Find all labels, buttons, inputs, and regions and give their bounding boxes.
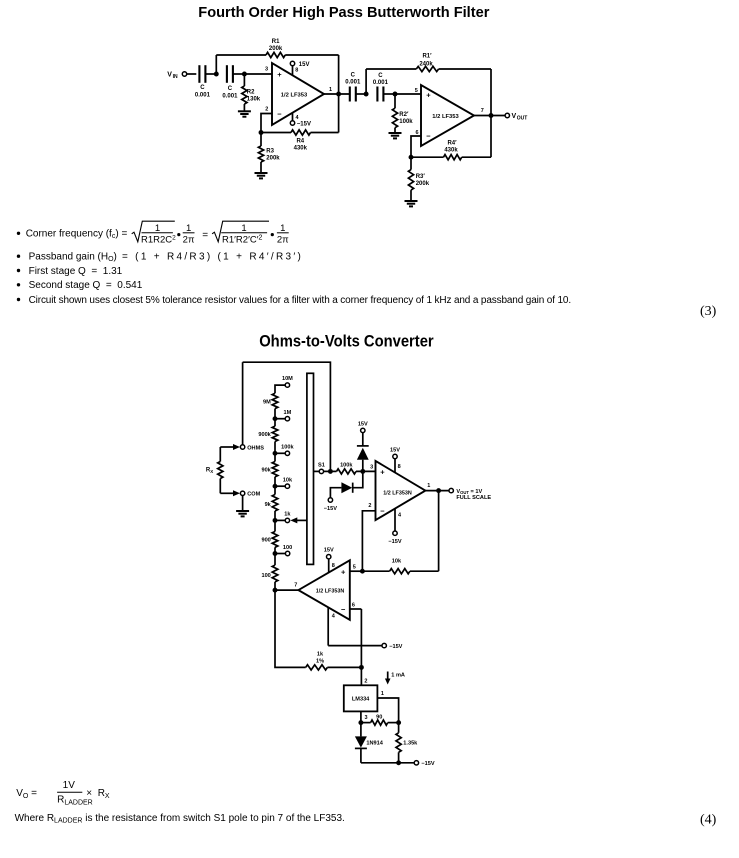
- wire VIN to C1: [187, 73, 197, 75]
- wire C3 to node E: [356, 93, 366, 95]
- svg-text:Circuit shown uses closest 5%: Circuit shown uses closest 5% tolerance …: [29, 295, 571, 306]
- svg-text:2: 2: [364, 678, 367, 684]
- power +15V terminal U1 pin 8: [290, 61, 309, 68]
- svg-text:S1: S1: [318, 462, 325, 468]
- svg-text:8: 8: [398, 464, 401, 470]
- svg-text:R1′: R1′: [422, 53, 432, 59]
- wire 100k tap to 90k: [274, 453, 276, 461]
- pin 5 wire U4: [350, 564, 363, 571]
- svg-text:900: 900: [261, 538, 270, 544]
- resistor R4' 430k: [444, 155, 462, 160]
- node VOUT terminal: [505, 113, 527, 122]
- svg-text:Ohms-to-Volts Converter: Ohms-to-Volts Converter: [259, 332, 434, 350]
- wire R1 rail right segment: [285, 54, 338, 56]
- wire R1' rail right segment: [439, 68, 491, 70]
- svg-text:8: 8: [332, 563, 335, 569]
- wire Rx to COM with arrow: [220, 490, 240, 496]
- svg-text:R3′: R3′: [416, 174, 426, 180]
- resistor R4 430k: [291, 130, 311, 135]
- resistor R3' 200k: [408, 170, 413, 191]
- bullet: circuit tolerance note: [17, 295, 571, 306]
- pin 3 label U1: [265, 67, 268, 73]
- wire 1k tap to 900: [274, 520, 276, 531]
- resistor ladder 90k: [272, 462, 278, 477]
- node 1M tap junction: [273, 416, 286, 421]
- svg-text:−: −: [380, 507, 385, 516]
- resistor ladder 100: [272, 565, 278, 582]
- svg-text:9M: 9M: [263, 400, 271, 406]
- svg-text:2: 2: [368, 503, 371, 509]
- bullet: passband gain: [17, 252, 303, 264]
- label R1' 240k: [419, 53, 433, 67]
- svg-text:3: 3: [265, 67, 268, 73]
- node VOUT2 terminal: [449, 488, 491, 501]
- node K junction (pin 3 node): [360, 469, 365, 474]
- label R3' 200k: [416, 174, 430, 187]
- svg-text:0.001: 0.001: [195, 93, 211, 99]
- svg-text:(4): (4): [700, 813, 717, 828]
- wire U1 output: [324, 93, 350, 95]
- svg-text:10k: 10k: [392, 559, 402, 565]
- wire S1 bar to pole: [314, 470, 320, 472]
- wire U2 pin 6 to feedback corner: [411, 136, 421, 157]
- svg-text:1/2 LF353N: 1/2 LF353N: [383, 490, 412, 496]
- wire output rail up stage2: [490, 116, 492, 158]
- svg-text:5: 5: [353, 564, 356, 570]
- svg-text:R4′: R4′: [447, 140, 457, 146]
- svg-text:15V: 15V: [324, 548, 334, 554]
- resistor R2 130k: [242, 86, 247, 104]
- wire node C to R4: [261, 132, 291, 134]
- node 100k tap junction: [273, 451, 286, 456]
- svg-text:10k: 10k: [283, 478, 293, 484]
- svg-text:0.001: 0.001: [345, 80, 361, 86]
- svg-text:100k: 100k: [281, 445, 294, 451]
- wire ladder top to 10M tap: [275, 385, 287, 393]
- svg-text:240k: 240k: [419, 62, 433, 68]
- wire 1M tap to 900k: [274, 419, 276, 427]
- wire U3 output: [425, 490, 449, 492]
- wire 10k tap to 9k: [274, 486, 276, 494]
- svg-text:R4: R4: [296, 138, 304, 144]
- node D output junction stage1: [336, 92, 341, 97]
- power +15V terminal U3 pin 8: [390, 447, 400, 458]
- label R4 430k: [294, 138, 308, 151]
- wire U2 output: [474, 115, 505, 117]
- wire node P to diode 1N914: [360, 723, 362, 737]
- wire 9M to 1M tap: [274, 409, 276, 419]
- svg-text:Second stage Q = 0.541: Second stage Q = 0.541: [29, 280, 143, 291]
- svg-text:−15V: −15V: [421, 761, 434, 767]
- svg-text:=: =: [202, 230, 208, 241]
- wire R1' rail left segment: [366, 68, 416, 70]
- svg-text:R1′R2′C′2: R1′R2′C′2: [222, 234, 263, 245]
- svg-text:1/2 LF353: 1/2 LF353: [432, 114, 459, 120]
- wire S1 pole to node J: [324, 470, 337, 472]
- node 100 tap junction: [273, 551, 286, 556]
- node A junction (C1/C2/R1 feedback): [214, 72, 219, 77]
- op-amp U4 1/2 LF353N (ladder driver): [298, 560, 349, 620]
- svg-text:6: 6: [415, 130, 418, 136]
- svg-text:15V: 15V: [299, 62, 310, 68]
- node E junction (C3/C4/R1' feedback): [364, 92, 369, 97]
- wire LM334 pin 3: [361, 711, 368, 722]
- label 100 resistor: [261, 573, 270, 579]
- svg-text:7: 7: [481, 108, 484, 114]
- svg-text:0.001: 0.001: [222, 94, 238, 100]
- node 10k tap terminal: [283, 478, 293, 489]
- ground under R2: [238, 111, 251, 116]
- svg-text:200k: 200k: [266, 156, 280, 162]
- label 100k input: [340, 462, 353, 468]
- svg-text:430k: 430k: [444, 148, 458, 154]
- ground under COM: [236, 511, 249, 516]
- svg-text:−15V: −15V: [388, 539, 401, 545]
- svg-text:1.35k: 1.35k: [403, 741, 418, 747]
- op-amp U1 1/2 LF353 (stage 1): [272, 63, 324, 125]
- wire 900 to 100 tap: [274, 547, 276, 553]
- label 9M: [263, 400, 271, 406]
- svg-text:1M: 1M: [284, 410, 292, 416]
- wire R1 rail down to output node: [338, 55, 340, 94]
- svg-text:200k: 200k: [416, 181, 430, 187]
- label R2' 100k: [399, 112, 413, 125]
- svg-text:OUT: OUT: [517, 116, 528, 122]
- svg-text:−15V: −15V: [324, 506, 337, 512]
- diode D3 1N914: [355, 736, 384, 748]
- resistor ladder 900k: [272, 426, 278, 441]
- resistor R2' 100k: [392, 108, 397, 128]
- svg-text:200k: 200k: [269, 46, 283, 52]
- svg-text:1: 1: [427, 483, 430, 489]
- svg-text:1: 1: [329, 87, 332, 93]
- svg-text:1N914: 1N914: [366, 740, 383, 746]
- svg-text:7: 7: [294, 582, 297, 588]
- wire R1' rail down to output node: [490, 69, 492, 116]
- wire R4' to output rail: [462, 156, 491, 158]
- resistor ladder 9k: [272, 495, 278, 512]
- svg-text:1%: 1%: [316, 659, 324, 665]
- label 10k: [392, 559, 402, 565]
- title: Fourth Order High Pass Butterworth Filter: [198, 5, 489, 21]
- label C2 value C 0.001: [222, 86, 238, 100]
- label C3 value C 0.001: [345, 72, 361, 85]
- svg-text:1k: 1k: [317, 652, 324, 658]
- wire node G to R4': [411, 156, 444, 158]
- wire node A up to R1 rail: [215, 55, 217, 74]
- ground under R2': [389, 133, 402, 138]
- wire node G to R3': [410, 157, 412, 169]
- pin 4 stub U3: [395, 509, 402, 531]
- svg-text:90: 90: [376, 714, 382, 720]
- bullet: first stage Q: [17, 266, 123, 277]
- svg-text:100k: 100k: [399, 119, 413, 125]
- pin 2 label U1: [265, 106, 268, 112]
- svg-text:+: +: [380, 468, 385, 477]
- svg-text:1: 1: [241, 223, 246, 234]
- node 1k tap terminal: [284, 512, 291, 523]
- node B junction (C2/R2/op-amp +): [242, 72, 247, 77]
- svg-text:10M: 10M: [282, 376, 293, 382]
- pin 6 label U2: [415, 130, 418, 136]
- svg-text:R2: R2: [247, 90, 255, 96]
- note: RLADDER definition: [15, 813, 345, 825]
- pin 8 stub U3: [395, 459, 401, 473]
- svg-text:1: 1: [280, 223, 285, 234]
- wire node E up to R1' rail: [365, 69, 367, 94]
- svg-text:(3): (3): [700, 304, 717, 319]
- svg-text:1/2 LF353N: 1/2 LF353N: [316, 589, 345, 595]
- node P junction (pin3/90): [358, 720, 363, 725]
- svg-text:R3: R3: [266, 148, 274, 154]
- node L output junction U3: [436, 488, 441, 493]
- resistor ladder 9M: [272, 393, 278, 408]
- node S1 pole terminal: [318, 462, 325, 473]
- node J junction (top rail / S1): [328, 469, 333, 474]
- title: Ohms-to-Volts Converter: [259, 332, 434, 350]
- label 90: [376, 714, 382, 720]
- pin 2 label U3: [368, 503, 371, 509]
- svg-text:R1R2C2: R1R2C2: [141, 234, 176, 245]
- resistor R3 200k: [258, 146, 263, 162]
- svg-text:1: 1: [186, 223, 191, 234]
- svg-text:900k: 900k: [258, 432, 271, 438]
- wire C2 to node B: [233, 73, 244, 75]
- svg-text:RX: RX: [206, 468, 213, 474]
- wire D2 to -15V terminal: [330, 488, 341, 498]
- capacitor C2: [227, 65, 233, 83]
- svg-text:2: 2: [265, 106, 268, 112]
- wire 100k to node K: [356, 470, 376, 472]
- svg-text:430k: 430k: [294, 146, 308, 152]
- power -15V terminal U1 pin 4: [290, 121, 311, 128]
- wire output rail up: [338, 94, 340, 133]
- resistor R1 200k: [266, 52, 285, 57]
- svg-text:90k: 90k: [261, 467, 271, 473]
- svg-text:130k: 130k: [247, 97, 261, 103]
- wire node L down to 10k: [438, 491, 440, 572]
- figure number (4): [700, 813, 717, 828]
- svg-text:6: 6: [352, 603, 355, 609]
- resistor RX (unknown): [218, 447, 223, 493]
- svg-text:2π: 2π: [277, 234, 289, 245]
- svg-text:+: +: [426, 91, 431, 100]
- figure number (3): [700, 304, 717, 319]
- svg-text:C: C: [378, 73, 383, 79]
- wire C1 to node A: [205, 73, 216, 75]
- svg-text:1k: 1k: [284, 512, 291, 518]
- op-amp U2 1/2 LF353 (stage 2): [421, 85, 474, 146]
- wire node Q to 1.35k: [398, 723, 400, 733]
- diode D2 clamp to -15V: [341, 482, 352, 493]
- pin 8 stub U1: [293, 66, 299, 75]
- power -15V terminal bottom: [414, 761, 435, 768]
- svg-text:C: C: [351, 72, 356, 78]
- svg-text:V: V: [167, 72, 172, 79]
- wire 9k to 1k tap: [274, 511, 276, 520]
- ground under R3: [255, 173, 268, 178]
- label 1k 1%: [316, 652, 324, 665]
- wire D1 to +15V terminal: [362, 433, 364, 446]
- svg-text:C: C: [200, 85, 205, 91]
- svg-text:5: 5: [415, 88, 418, 94]
- capacitor C3: [350, 87, 356, 102]
- wire OHMS terminal up: [242, 362, 244, 445]
- svg-text:8: 8: [295, 68, 298, 74]
- svg-text:1V: 1V: [63, 780, 76, 791]
- svg-text:−: −: [277, 110, 282, 119]
- node COM terminal: [240, 491, 260, 498]
- capacitor C1 (input cap): [199, 65, 205, 83]
- pin 4 stub U4: [328, 607, 336, 645]
- wire ladder bottom down-left rail: [275, 590, 306, 667]
- resistor 100k input: [337, 469, 357, 474]
- pin 4 stub U1: [293, 113, 300, 121]
- node C junction (R3/R4/pin2): [259, 130, 264, 135]
- svg-text:C: C: [228, 86, 233, 92]
- pin 7 label U2: [481, 108, 484, 114]
- label C1 value C 0.001: [195, 85, 211, 99]
- node 10M tap terminal: [282, 376, 293, 387]
- svg-text:First stage Q = 1.31: First stage Q = 1.31: [29, 266, 123, 277]
- svg-text:2π: 2π: [183, 234, 195, 245]
- ground under R3': [405, 201, 418, 206]
- svg-text:1/2 LF353: 1/2 LF353: [281, 92, 308, 98]
- wire R2' to ground: [394, 128, 396, 133]
- node R junction bottom rail: [396, 760, 401, 765]
- power +15V terminal U4 pin 8: [324, 548, 334, 559]
- wire 100 to ladder bottom node: [274, 582, 276, 590]
- node 100k tap terminal: [281, 445, 294, 456]
- current arrow 1 mA: [385, 672, 405, 685]
- svg-text:−15V: −15V: [297, 122, 311, 128]
- label R3 200k: [266, 148, 280, 161]
- label RX: [206, 468, 213, 474]
- wire R2 to ground: [243, 104, 245, 111]
- label 900: [261, 538, 270, 544]
- label R2 130k: [247, 90, 261, 103]
- wire node F to op-amp U2 pin 5: [395, 93, 421, 95]
- svg-text:0.001: 0.001: [373, 80, 389, 86]
- svg-text:1 mA: 1 mA: [391, 673, 405, 679]
- node M junction (pin5/10k/pin2): [360, 569, 365, 574]
- svg-text:Fourth Order High Pass Butterw: Fourth Order High Pass Butterworth Filte…: [198, 5, 489, 21]
- node 1M tap terminal: [284, 410, 292, 421]
- node 100 tap terminal: [283, 545, 292, 556]
- wire node B to op-amp U1 pin 3: [244, 73, 272, 75]
- label 900k: [258, 432, 271, 438]
- wire 1N914 to bottom rail: [360, 748, 362, 762]
- node OHMS terminal: [240, 445, 264, 452]
- wire U1 pin 2 to feedback corner: [261, 114, 272, 133]
- pin 1 label U3: [427, 483, 430, 489]
- node ladder bottom junction: [273, 588, 278, 593]
- power +15V terminal (clamp): [358, 421, 368, 432]
- wire pin6 down to node N: [360, 609, 362, 667]
- diode D1 clamp to +15V: [357, 446, 369, 460]
- svg-text:−15V: −15V: [389, 644, 402, 650]
- wire Rx to OHMS with arrow: [220, 444, 240, 450]
- wire OHMS top rail: [243, 362, 331, 471]
- wire node K down to clamp diode D2: [353, 471, 363, 487]
- wire 1.35k to bottom rail: [398, 752, 400, 763]
- wire node P to 90: [361, 722, 371, 724]
- node 1k tap junction: [273, 518, 286, 523]
- label R1: [269, 39, 283, 52]
- wire node C to R3: [260, 133, 262, 147]
- capacitor C4: [377, 87, 383, 102]
- svg-text:R1: R1: [272, 39, 280, 45]
- wire R3 to ground: [260, 162, 262, 173]
- formula: VO equation: [16, 780, 110, 806]
- svg-text:+: +: [277, 70, 282, 79]
- power -15V terminal U3 pin 4: [388, 531, 401, 545]
- resistor ladder 900: [272, 532, 278, 548]
- svg-text:100: 100: [261, 573, 270, 579]
- label 1.35k: [403, 741, 418, 747]
- label C4 value C 0.001: [373, 73, 389, 86]
- power -15V terminal U4 pin 4: [382, 643, 403, 650]
- wire 90k to 10k tap: [274, 477, 276, 486]
- svg-text:V: V: [512, 113, 517, 120]
- wire R3' to ground: [410, 190, 412, 201]
- wire node N to LM334 pin 2: [361, 667, 367, 685]
- node N junction (1k/pin6/LM334): [359, 665, 364, 670]
- svg-text:1: 1: [381, 691, 384, 697]
- op-amp U3 1/2 LF353N (buffer): [376, 461, 426, 520]
- label R4' 430k: [444, 140, 458, 153]
- wire S1 bar to 1k tap with arrow: [290, 517, 307, 523]
- svg-text:15V: 15V: [390, 447, 400, 453]
- svg-text:+: +: [341, 567, 346, 576]
- wire node M to 10k: [362, 570, 389, 572]
- svg-text:COM: COM: [247, 492, 260, 498]
- IC LM334 current source: [344, 685, 378, 711]
- pin 7 label U4: [294, 582, 297, 588]
- switch S1 wiper bar: [307, 373, 314, 564]
- wire C4 to node F: [383, 93, 395, 95]
- svg-text:LM334: LM334: [352, 697, 370, 703]
- label 90k: [261, 467, 271, 473]
- wire R4 to output rail: [311, 132, 339, 134]
- svg-text:3: 3: [370, 464, 373, 470]
- power -15V terminal (clamp): [324, 498, 337, 512]
- node VIN input terminal: [167, 72, 186, 81]
- pin 3 label U3: [370, 464, 373, 470]
- svg-text:−: −: [341, 605, 346, 614]
- svg-text:100k: 100k: [340, 462, 353, 468]
- node 10k tap junction: [273, 484, 286, 489]
- svg-text:15V: 15V: [358, 421, 368, 427]
- wire LM334 pin 1: [377, 691, 398, 722]
- bullet: second stage Q: [17, 280, 143, 291]
- wire 1k to node N: [327, 666, 361, 668]
- wire 90 to node Q: [388, 722, 399, 724]
- svg-text:OHMS: OHMS: [247, 445, 264, 451]
- resistor 1k 1%: [306, 665, 328, 670]
- wire node F to R2': [394, 94, 396, 108]
- node H output junction stage2: [489, 113, 494, 118]
- wire 100 tap to 100 resistor: [274, 554, 276, 566]
- pin 5 label U2: [415, 88, 418, 94]
- label 9k: [265, 502, 272, 508]
- wire U3 pin 2 down to pin5 node: [362, 511, 375, 571]
- wire U4 output to ladder: [275, 589, 298, 591]
- wire node K to clamp diode D1: [362, 460, 364, 472]
- wire pin4 to -15V terminal U4: [328, 645, 382, 647]
- svg-text:FULL SCALE: FULL SCALE: [456, 495, 491, 501]
- svg-text:3: 3: [365, 715, 368, 721]
